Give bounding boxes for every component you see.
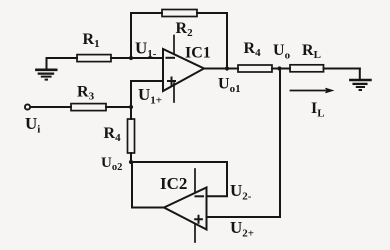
- wire: [197, 13, 227, 69]
- svg-text:R4: R4: [244, 40, 262, 59]
- wire: [279, 69, 281, 218]
- resistor RL: [290, 42, 324, 72]
- wire: [47, 57, 78, 59]
- svg-text:IC1: IC1: [185, 45, 211, 62]
- ground: [350, 69, 370, 91]
- wire: [272, 68, 290, 70]
- svg-text:R2: R2: [176, 20, 194, 39]
- svg-text:IC2: IC2: [160, 174, 187, 193]
- resistor R4b: [238, 40, 272, 72]
- wire: [131, 162, 227, 196]
- svg-text:IL: IL: [311, 100, 325, 120]
- resistor R2: [162, 10, 197, 40]
- svg-text:U2+: U2+: [230, 218, 254, 240]
- svg-text:R4: R4: [104, 125, 122, 144]
- wire: [31, 106, 72, 108]
- wire: [204, 68, 238, 70]
- wire: [130, 153, 132, 162]
- svg-text:U1+: U1+: [138, 85, 162, 107]
- node U0: [273, 42, 291, 71]
- resistor R1: [77, 31, 111, 62]
- svg-text:Uo1: Uo1: [218, 76, 241, 96]
- op-amp IC1: [163, 36, 211, 103]
- resistor R4: [104, 119, 135, 153]
- wire: [131, 80, 163, 82]
- current arrow IL: [291, 88, 333, 119]
- op-amp IC2: [160, 169, 207, 242]
- node U01: [218, 66, 241, 95]
- svg-text:R1: R1: [83, 31, 100, 50]
- svg-text:Uo2: Uo2: [101, 155, 122, 173]
- wire: [131, 13, 162, 58]
- node U02: [101, 155, 133, 173]
- node: [129, 105, 133, 109]
- wire: [130, 107, 132, 119]
- svg-text:R3: R3: [77, 84, 95, 103]
- wire: [324, 68, 360, 70]
- svg-text:Uo: Uo: [273, 42, 291, 62]
- node U1-: [129, 39, 157, 61]
- svg-text:RL: RL: [302, 42, 321, 61]
- ground: [36, 58, 56, 80]
- terminal Ui: [25, 104, 40, 135]
- wire: [130, 81, 132, 107]
- wire: [132, 162, 164, 208]
- svg-text:U1-: U1-: [135, 39, 157, 61]
- wire: [106, 106, 131, 108]
- svg-text:U2-: U2-: [230, 181, 252, 203]
- wire: [111, 57, 163, 59]
- wire: [207, 216, 281, 218]
- resistor R3: [71, 84, 106, 111]
- svg-text:Ui: Ui: [25, 114, 40, 136]
